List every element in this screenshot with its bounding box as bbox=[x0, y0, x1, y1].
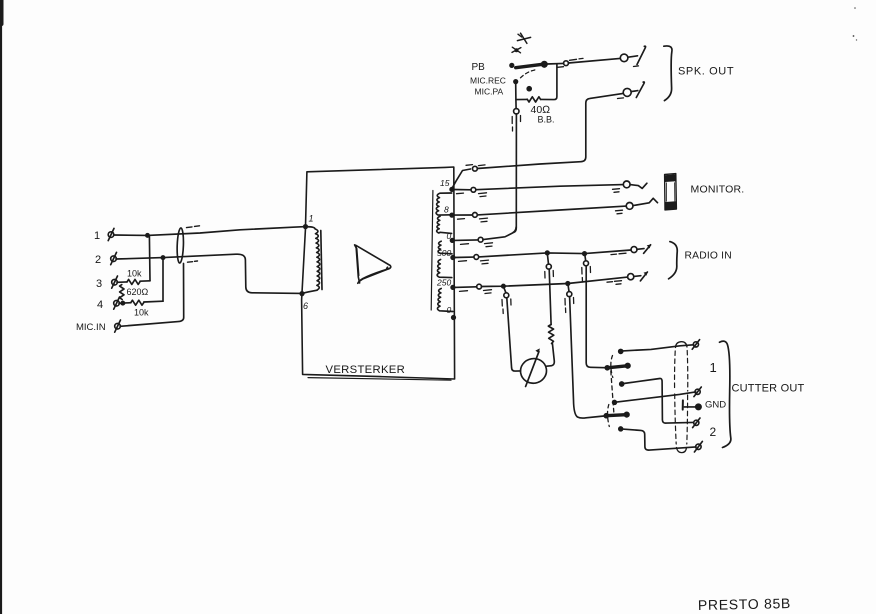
wire input1 to transformer bbox=[114, 227, 307, 236]
node junction 500/sw1 bbox=[583, 252, 587, 256]
SPK jack2 bbox=[623, 88, 631, 96]
switch SW2 (cutter lower) bbox=[604, 401, 629, 431]
svg-text:4: 4 bbox=[97, 299, 103, 311]
wire tap8 to MONITOR jack2 bbox=[454, 214, 473, 216]
wire 500 junction down to resistor bbox=[547, 253, 548, 264]
terminal T5 bbox=[694, 441, 702, 452]
svg-text:2: 2 bbox=[710, 425, 717, 439]
wire input4 up to wire2 bbox=[162, 258, 164, 301]
svg-text:PRESTO 85B: PRESTO 85B bbox=[698, 595, 791, 613]
wire sw2 upper contact to T2 bbox=[616, 392, 695, 402]
svg-text:1: 1 bbox=[710, 360, 717, 375]
wire 250 junction down to switch2 bbox=[568, 284, 569, 292]
connector circle on tap15 upper wire bbox=[473, 166, 478, 171]
svg-text:B.B.: B.B. bbox=[538, 115, 555, 125]
svg-text:250: 250 bbox=[436, 278, 451, 288]
svg-text:GND: GND bbox=[705, 400, 726, 411]
monitor connector symbol bbox=[665, 174, 677, 210]
transformer secondary coil sections bbox=[431, 191, 453, 312]
meter bbox=[519, 348, 549, 386]
terminal T2 bbox=[694, 387, 701, 397]
bracket SPK bbox=[664, 46, 672, 101]
wire input3 up to wire1 bbox=[148, 236, 151, 281]
amplifier box VERSTERKER bbox=[302, 167, 455, 379]
svg-text:10k: 10k bbox=[127, 269, 142, 279]
RADIO jack2 bbox=[628, 274, 634, 280]
wire tap15 to MONITOR jack1 bbox=[454, 189, 471, 191]
switch coupling dashed bbox=[611, 371, 614, 412]
svg-text:SPK. OUT: SPK. OUT bbox=[678, 66, 734, 78]
wire tap0 to MIC.REC vertical bbox=[454, 239, 478, 242]
svg-text:PB: PB bbox=[472, 62, 486, 73]
secondary tap junction dots bbox=[450, 188, 454, 192]
node 3 terminal bbox=[96, 276, 118, 290]
node MIC.IN terminal bbox=[76, 320, 121, 333]
speck top right bbox=[854, 7, 856, 9]
svg-text:10k: 10k bbox=[134, 308, 149, 318]
svg-text:3: 3 bbox=[96, 278, 102, 290]
svg-text:2: 2 bbox=[95, 254, 101, 266]
resistor 10k (input4) bbox=[119, 300, 163, 317]
node 1 terminal bbox=[94, 228, 114, 242]
RADIO jack1 bbox=[631, 247, 637, 253]
wire MIC.REC contact down to tap0 bbox=[515, 83, 517, 108]
rotary switch PB / MIC.REC / MIC.PA bbox=[470, 62, 547, 97]
svg-text:6: 6 bbox=[303, 301, 308, 311]
svg-text:500: 500 bbox=[437, 248, 451, 258]
svg-text:15: 15 bbox=[440, 178, 450, 188]
wire sw1 lower contact to T4 bbox=[624, 378, 694, 423]
svg-text:1: 1 bbox=[94, 230, 100, 242]
bracket RADIO bbox=[669, 242, 678, 279]
node junction w1 bbox=[146, 234, 149, 237]
wire 500 junction down to switch1 bbox=[585, 254, 586, 261]
MONITOR jack2 bbox=[626, 203, 633, 210]
cable shield ellipse left bbox=[177, 226, 200, 263]
svg-text:CUTTER OUT: CUTTER OUT bbox=[732, 383, 805, 395]
resistor meter series bbox=[548, 325, 554, 344]
SPK jack1 bbox=[620, 54, 628, 62]
small star mark bbox=[512, 47, 521, 53]
node junction res4 bbox=[121, 301, 124, 304]
svg-text:MONITOR.: MONITOR. bbox=[691, 184, 745, 196]
wire sw1 upper contact to T1 bbox=[623, 345, 694, 351]
MONITOR jack1 bbox=[623, 181, 630, 188]
wire 250 junction down to meter left bbox=[503, 286, 506, 292]
terminal T1 bbox=[692, 340, 699, 350]
wire switch pivot to SPK jack1 bbox=[547, 62, 564, 65]
resistor 620ohm (vertical) bbox=[120, 285, 149, 300]
node junction 250/meter bbox=[502, 285, 505, 288]
cable shield ellipse cutter bbox=[675, 342, 688, 453]
svg-text:MIC.IN: MIC.IN bbox=[76, 322, 106, 333]
terminal GND bbox=[683, 400, 701, 409]
wire tap500 to RADIO jack1 bbox=[454, 256, 474, 258]
resistor 40ohm bbox=[516, 64, 557, 125]
wire MIC.IN up through shield bbox=[120, 264, 184, 327]
wire input2 to transformer bbox=[116, 254, 302, 293]
node 2 terminal bbox=[95, 252, 117, 266]
svg-text:1: 1 bbox=[309, 214, 314, 224]
bracket CUTTER bbox=[720, 341, 731, 447]
X mark above switch bbox=[517, 33, 530, 43]
svg-text:620Ω: 620Ω bbox=[127, 287, 149, 297]
switch SW1 (cutter upper) bbox=[605, 349, 630, 386]
node junction primary top bbox=[304, 225, 308, 229]
svg-text:8: 8 bbox=[444, 205, 449, 215]
node 4 terminal bbox=[97, 297, 120, 311]
wire sw2 lower contact to T5 bbox=[623, 429, 696, 450]
svg-text:MIC.REC: MIC.REC bbox=[470, 76, 506, 86]
node junction w2 bbox=[161, 256, 164, 259]
resistor 10k (input3) bbox=[117, 269, 150, 285]
svg-text:MIC.PA: MIC.PA bbox=[475, 87, 504, 97]
wire tap250 to RADIO jack2 bbox=[454, 286, 477, 289]
transformer primary coil bbox=[302, 214, 322, 312]
node junction 500/meter bbox=[546, 251, 550, 255]
scan border left edge bbox=[0, 0, 2, 614]
svg-text:0: 0 bbox=[447, 305, 452, 315]
node junction 250/sw2 bbox=[566, 282, 570, 286]
terminal T4 bbox=[693, 418, 700, 428]
svg-text:RADIO IN: RADIO IN bbox=[685, 251, 732, 262]
wire tap15 up to SPK jack2 bbox=[452, 169, 470, 188]
node junction primary bottom bbox=[300, 292, 304, 296]
wire continues to SPK jack2 bbox=[477, 93, 623, 168]
svg-text:VERSTERKER: VERSTERKER bbox=[326, 364, 406, 376]
op-amp triangle bbox=[355, 245, 391, 283]
